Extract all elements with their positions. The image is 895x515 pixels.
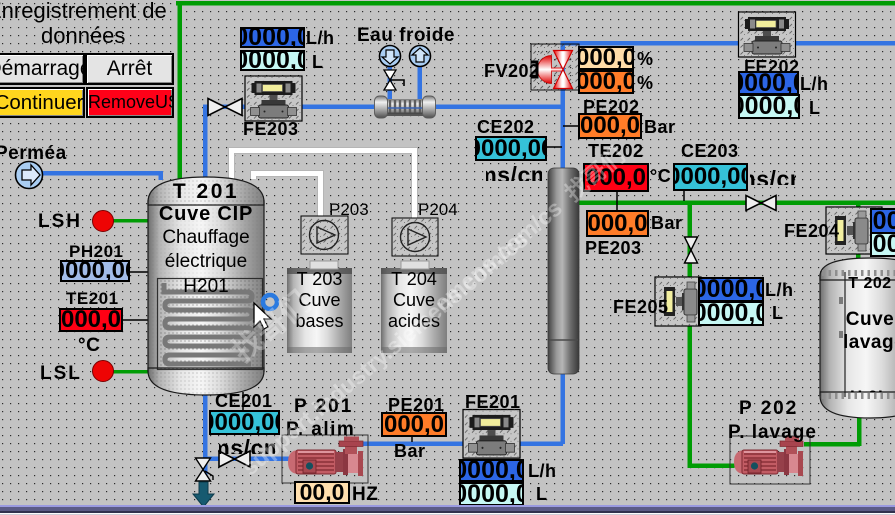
FE202 displays	[738, 71, 799, 95]
cuve lavage texts	[845, 276, 895, 292]
label LSH	[38, 212, 82, 231]
label FE205	[613, 298, 669, 316]
tie line TE202 to green pipe	[616, 191, 618, 212]
title line 2	[41, 25, 125, 47]
heating coil H201 box	[158, 279, 263, 370]
tie line PE201 to pipe	[411, 436, 413, 442]
label PE201	[388, 396, 445, 414]
tie line TE201 display to tank	[122, 319, 150, 321]
tank T204 texts	[381, 270, 447, 288]
PE202 display	[578, 113, 642, 139]
manual valve main line (left of FE203)	[208, 99, 242, 116]
label Bar PE201	[394, 442, 426, 460]
green pipe vertical x690	[688, 203, 693, 466]
CE201 display	[209, 410, 280, 435]
tank T201	[148, 177, 264, 395]
blue pipe pump outlet to column	[360, 442, 563, 447]
label PE202	[583, 98, 640, 116]
FE201 displays	[459, 459, 524, 482]
button RemoveUSB	[86, 87, 174, 118]
PE201 display	[381, 412, 447, 437]
watermark chinese chars	[228, 287, 316, 368]
label FE202	[744, 58, 800, 76]
mouse cursor with busy ring	[254, 295, 277, 329]
button Demarrage	[0, 53, 85, 85]
eau froide outlet circle (up arrow)	[410, 46, 431, 67]
pump P201	[282, 435, 368, 483]
bottom taskbar edge	[0, 505, 895, 507]
tank T203 texts	[287, 270, 352, 288]
green pipe to P202 inlet	[688, 464, 735, 469]
CE202 display	[475, 136, 547, 161]
green line LSL	[113, 370, 149, 374]
manual valve tank outlet line	[219, 451, 250, 467]
label TE202	[588, 142, 644, 160]
label ms/cm CE201	[219, 437, 275, 454]
blue pipe vertical into tank top	[203, 105, 208, 180]
watermark siemens.com/cs upper	[430, 144, 629, 316]
tie line PH201 display to tank	[130, 271, 150, 273]
FV202 % displays	[578, 46, 634, 70]
label P lavage	[728, 423, 817, 442]
tie line HZ display to pump box	[321, 481, 323, 484]
label P 202	[739, 399, 798, 418]
tank T203	[287, 268, 352, 353]
tank T204	[381, 268, 447, 353]
tank T201 texts	[148, 181, 264, 202]
label P alim	[286, 420, 355, 439]
green pipe second horizontal y203	[576, 201, 895, 206]
label Bar PE202	[644, 118, 676, 136]
LSL sensor circle	[93, 361, 114, 382]
LSH sensor circle	[93, 211, 114, 232]
CE203 display	[673, 163, 748, 191]
label Permea	[0, 144, 67, 163]
label CE201	[215, 392, 273, 410]
control valve FV202	[531, 44, 579, 90]
HZ display	[294, 481, 350, 504]
TE201 display	[59, 308, 123, 332]
PE203 display	[586, 210, 649, 237]
heat exchanger	[375, 96, 436, 118]
watermark support.industry.siemens.com	[238, 227, 532, 479]
tie line CE201 to tank	[242, 392, 244, 410]
white pipe from P204 to tank	[232, 151, 415, 219]
green pipe vertical FE204 to cuve lavage	[856, 203, 861, 263]
dosing pump P203	[301, 216, 348, 269]
tie line CE202 display to pipe	[545, 146, 562, 148]
label ms/cm CE203	[750, 168, 796, 185]
blue pipe permeat	[40, 171, 162, 176]
label CE202	[477, 118, 535, 136]
button Continuer	[0, 87, 85, 118]
TE202 display	[583, 163, 649, 192]
label degC TE201	[78, 336, 100, 355]
green line LSH	[113, 219, 149, 223]
label TE201	[66, 290, 119, 307]
label CE203	[681, 142, 739, 160]
pump P202	[730, 436, 810, 484]
label FE201	[465, 393, 521, 411]
flow meter FE205 (vertical)	[655, 277, 701, 326]
manual valve on green pipe y203	[746, 196, 776, 211]
green pipe top horizontal	[176, 1, 895, 6]
permeat source circle	[16, 162, 43, 189]
label Eau froide	[357, 26, 455, 45]
valve vertical on green pipe x690	[685, 237, 698, 263]
label HZ	[352, 485, 378, 504]
PH201 display	[60, 260, 130, 282]
small valve eau froide	[384, 70, 404, 90]
flow meter FE204 (vertical)	[826, 207, 882, 254]
label PE203	[585, 239, 642, 257]
white pipe from P203 to tank	[254, 174, 321, 217]
eau froide inlet circle (down arrow)	[380, 46, 401, 67]
flow meter FE201	[463, 410, 520, 459]
drain valve vertical below tank	[196, 458, 214, 481]
label P204	[418, 201, 458, 218]
flow meter FE202	[739, 12, 796, 57]
blue pipe top horizontal y43	[561, 41, 895, 46]
blue pipes eau froide	[388, 64, 393, 100]
cuve lavage tank T202	[820, 258, 895, 418]
blue pipe tank outlet to pump P201	[203, 457, 289, 462]
label P 201	[294, 397, 353, 416]
label PH201	[69, 243, 123, 260]
dosing pump P204	[392, 218, 438, 269]
label FE203	[243, 120, 299, 138]
blue pipe tank outlet vertical	[203, 392, 208, 480]
green pipe P202 outlet to tank	[804, 442, 860, 447]
label Bar PE203	[651, 214, 683, 232]
title line 1	[0, 0, 167, 22]
label LSL	[40, 364, 82, 383]
tie line CE203 to green pipe	[683, 190, 685, 201]
label FV202	[484, 62, 540, 80]
label ms/cm CE202	[486, 164, 542, 181]
blue pipe vertical x563 column riser	[561, 43, 566, 169]
membrane column	[548, 168, 579, 374]
label FE204	[784, 222, 840, 240]
green pipe vertical to tank T201	[178, 1, 183, 180]
FE203 displays	[240, 27, 305, 48]
blue pipe main horizontal y107	[203, 105, 565, 110]
heating coil H201 serpentine	[164, 283, 252, 364]
FE204 displays (clipped at right edge)	[870, 208, 895, 234]
tie line PE202 display to pipe	[563, 125, 579, 127]
flow meter FE203	[245, 76, 302, 121]
label degC TE202	[650, 167, 671, 185]
button Arret	[85, 53, 174, 85]
label P203	[329, 201, 369, 218]
drain arrow (dark teal)	[193, 482, 214, 507]
FE205 displays	[698, 277, 764, 302]
